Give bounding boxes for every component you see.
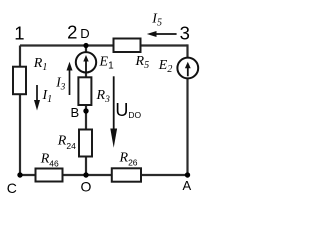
svg-text:R5: R5 [135,54,150,71]
svg-text:R3: R3 [96,88,111,105]
node D [80,26,89,48]
node A [183,172,192,193]
current arrow I1 [34,85,52,111]
resistor R26 [112,151,141,182]
voltage arrow UDO [110,76,141,148]
svg-text:I1: I1 [42,88,53,105]
svg-text:R46: R46 [40,152,59,169]
resistor R5 [114,39,150,72]
resistor R24 [57,130,92,157]
node C [7,172,23,196]
svg-text:I3: I3 [55,75,66,92]
svg-text:B: B [71,105,80,120]
svg-text:UDO: UDO [115,100,141,120]
current arrow I3 [55,62,72,95]
resistor R46 [36,152,63,182]
svg-text:3: 3 [180,22,190,43]
svg-text:R24: R24 [57,134,76,152]
svg-text:C: C [7,180,17,196]
svg-text:I5: I5 [151,12,162,29]
svg-text:E2: E2 [158,58,173,75]
wire right (3-A) [186,44,188,175]
svg-text:R1: R1 [33,56,48,73]
wire bottom (C-O-A) [20,174,188,176]
current arrow I5 [147,12,177,38]
wire top (1-D-3) [20,44,188,46]
source E2 [158,58,198,79]
svg-text:2: 2 [67,21,77,42]
wire left (1-C) [19,46,21,176]
source E1 [76,52,114,72]
wire middle (D-B-O) [85,46,87,176]
resistor R3 [78,77,110,105]
svg-text:A: A [183,178,192,193]
svg-text:R26: R26 [119,151,138,168]
svg-text:D: D [80,26,89,41]
node B [71,105,89,120]
svg-text:1: 1 [14,23,24,44]
svg-text:O: O [81,179,92,195]
svg-text:E1: E1 [99,55,115,72]
resistor R1 [13,56,47,94]
node O [81,172,92,194]
